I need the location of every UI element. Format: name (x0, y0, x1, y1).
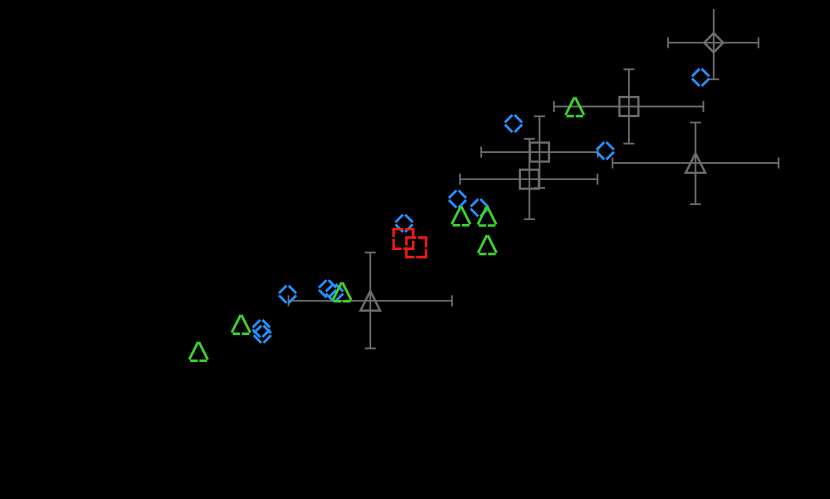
error bars of gray square point P3 (481, 116, 598, 188)
red square R1 (394, 229, 414, 249)
error bars of gray triangle point P6 (289, 253, 453, 349)
error bars of gray square point P4 (460, 139, 598, 219)
blue diamond B3 (597, 142, 614, 159)
green triangle G6 (232, 315, 251, 334)
error bars of gray triangle point P5 (613, 123, 779, 205)
gray square marker P3 (530, 143, 549, 162)
blue diamond B2 (505, 115, 522, 132)
blue diamond B10 (253, 320, 270, 337)
green triangle G1 (566, 97, 585, 116)
red square R2 (406, 238, 426, 258)
green triangle G4 (478, 235, 497, 254)
green triangle G7 (189, 342, 208, 361)
blue diamond B11 (254, 326, 271, 343)
blue diamond series (253, 69, 710, 343)
gray errorbar series (289, 9, 779, 348)
green triangle G3 (478, 207, 497, 226)
gray square marker P4 (520, 170, 539, 189)
blue diamond B8 (319, 280, 336, 297)
green triangle G5 (333, 282, 352, 301)
gray triangle marker P6 (361, 291, 381, 311)
gray diamond marker P1 (704, 33, 723, 52)
gray triangle marker P5 (686, 153, 706, 173)
green triangle G2 (452, 207, 471, 226)
blue diamond B9 (326, 284, 343, 301)
error bars of gray diamond point P1 (668, 9, 759, 79)
blue diamond B5 (471, 199, 488, 216)
blue diamond B1 (692, 69, 709, 86)
green triangle series (189, 97, 584, 360)
blue diamond B7 (279, 286, 296, 303)
blue diamond B4 (449, 190, 466, 207)
gray square marker P2 (619, 97, 638, 116)
blue diamond B6 (395, 215, 412, 232)
red square series (394, 229, 426, 257)
error bars of gray square point P2 (554, 69, 703, 143)
